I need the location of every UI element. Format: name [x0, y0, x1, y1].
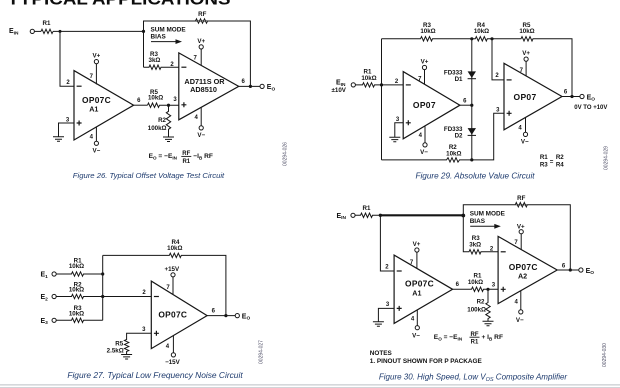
svg-text:3: 3 — [396, 117, 400, 123]
terminal EO — [235, 314, 239, 318]
svg-text:1. PINOUT SHOWN FOR P PACKAGE: 1. PINOUT SHOWN FOR P PACKAGE — [370, 358, 483, 365]
svg-text:V+: V+ — [93, 53, 101, 60]
svg-text:100kΩ: 100kΩ — [148, 125, 167, 132]
svg-text:4: 4 — [90, 134, 94, 140]
svg-text:R1: R1 — [540, 154, 548, 161]
svg-text:4: 4 — [515, 300, 519, 306]
wire bottom rail with resistor R2 — [382, 113, 505, 162]
svg-text:V−: V− — [197, 132, 205, 139]
node bottom rail junction — [470, 158, 473, 161]
svg-text:10kΩ: 10kΩ — [167, 245, 182, 252]
svg-text:10kΩ: 10kΩ — [148, 95, 163, 102]
node output junction — [249, 85, 252, 88]
svg-text:10kΩ: 10kΩ — [446, 151, 461, 158]
node bus junction 2 — [101, 295, 104, 298]
svg-text:BIAS: BIAS — [151, 34, 167, 41]
svg-text:10kΩ: 10kΩ — [69, 263, 84, 270]
svg-text:±10V: ±10V — [332, 87, 347, 94]
svg-text:R1: R1 — [43, 20, 51, 27]
ground — [483, 321, 494, 326]
svg-text:00294-030: 00294-030 — [602, 343, 608, 367]
svg-text:V−: V− — [412, 332, 420, 339]
svg-text:OP07: OP07 — [514, 92, 537, 102]
page bottom rule — [0, 384, 620, 385]
wire output — [239, 85, 260, 87]
svg-text:R3: R3 — [540, 161, 548, 168]
svg-text:Figure 26. Typical Offset Volt: Figure 26. Typical Offset Voltage Test C… — [73, 171, 225, 180]
ground — [121, 355, 132, 360]
wire — [34, 30, 41, 32]
svg-text:3kΩ: 3kΩ — [149, 57, 161, 64]
svg-text:EIN: EIN — [337, 213, 347, 221]
terminal EO — [260, 84, 264, 88]
svg-text:3: 3 — [386, 302, 390, 308]
node sum junction — [461, 214, 465, 218]
svg-text:BIAS: BIAS — [470, 218, 486, 225]
svg-text:10kΩ: 10kΩ — [468, 279, 483, 286]
svg-text:EO: EO — [586, 268, 595, 276]
svg-text:3: 3 — [173, 97, 177, 103]
svg-text:E3: E3 — [41, 318, 49, 326]
svg-text:7: 7 — [520, 68, 524, 74]
svg-text:EIN: EIN — [9, 28, 19, 36]
svg-text:V+: V+ — [517, 224, 525, 231]
svg-text:10kΩ: 10kΩ — [69, 310, 84, 317]
svg-text:0V TO +10V: 0V TO +10V — [574, 105, 607, 111]
svg-text:A2: A2 — [518, 272, 527, 281]
op-amp OP07C — [151, 281, 207, 349]
node diode rail top junction — [470, 37, 473, 40]
formula EO = -EIN RF/R1 - IB RF — [149, 151, 213, 165]
svg-text:V−: V− — [93, 147, 101, 154]
wire output A2 — [557, 269, 579, 271]
svg-text:E2: E2 — [41, 294, 49, 302]
svg-text:V−: V− — [521, 139, 529, 146]
ground — [53, 137, 64, 142]
svg-text:OP07C: OP07C — [405, 279, 434, 289]
node amp1 out junction — [470, 104, 473, 107]
svg-text:2: 2 — [495, 73, 499, 79]
svg-text:6: 6 — [456, 282, 460, 288]
svg-text:D1: D1 — [455, 76, 463, 83]
ground — [163, 137, 174, 142]
svg-text:4: 4 — [166, 344, 170, 350]
terminal EO — [579, 268, 583, 272]
svg-text:10kΩ: 10kΩ — [519, 28, 534, 35]
wire diode rail — [471, 39, 473, 160]
wire — [53, 30, 144, 32]
svg-text:R2: R2 — [556, 154, 564, 161]
svg-text:R1: R1 — [182, 159, 190, 165]
svg-text:R2: R2 — [158, 117, 166, 124]
resistor RF — [515, 203, 527, 207]
svg-text:4: 4 — [411, 317, 415, 323]
svg-text:6: 6 — [137, 98, 141, 104]
svg-text:OP07: OP07 — [413, 100, 436, 110]
formula EO = -EIN RF/R1 + IB RF — [434, 332, 503, 346]
svg-text:2: 2 — [395, 79, 399, 85]
svg-text:V+: V+ — [197, 38, 205, 45]
svg-text:EO = −EIN: EO = −EIN — [149, 153, 178, 160]
terminal EIN — [351, 213, 355, 217]
node output junction — [569, 268, 572, 271]
svg-text:E1: E1 — [41, 272, 49, 280]
svg-text:R1: R1 — [363, 205, 371, 212]
svg-text:−15V: −15V — [165, 359, 180, 366]
svg-text:Figure 29. Absolute Value Circ: Figure 29. Absolute Value Circuit — [415, 171, 535, 180]
wire bold sum bus — [380, 214, 463, 216]
svg-text:6: 6 — [212, 308, 216, 314]
svg-text:3: 3 — [492, 282, 496, 288]
svg-text:00294-029: 00294-029 — [604, 146, 610, 170]
svg-text:EO = −EIN: EO = −EIN — [434, 334, 463, 341]
svg-text:SUM MODE: SUM MODE — [470, 211, 506, 218]
terminal EO — [580, 94, 584, 98]
op-amp U2 OP07 — [504, 63, 562, 130]
svg-text:EO: EO — [242, 313, 251, 321]
resistor R3 3k wire to pin2 A2 — [463, 216, 498, 255]
svg-text:7: 7 — [514, 240, 518, 246]
op-amp U2 AD711S/AD8510 — [179, 53, 239, 120]
svg-text:00294-027: 00294-027 — [259, 340, 265, 364]
svg-text:EO: EO — [587, 94, 596, 102]
svg-text:Figure 27. Typical Low Frequen: Figure 27. Typical Low Frequency Noise C… — [67, 370, 243, 380]
svg-text:00294-026: 00294-026 — [283, 142, 289, 166]
wire top rail with R3 R4 R5 — [382, 37, 573, 97]
svg-text:7: 7 — [194, 56, 198, 62]
svg-text:V+: V+ — [413, 241, 421, 248]
svg-text:A1: A1 — [89, 104, 98, 113]
svg-text:4: 4 — [195, 115, 199, 121]
svg-text:RF: RF — [198, 11, 206, 18]
svg-text:10kΩ: 10kΩ — [420, 28, 435, 35]
svg-text:R5: R5 — [115, 340, 123, 347]
svg-text:OP07C: OP07C — [509, 262, 538, 272]
svg-text:100kΩ: 100kΩ — [467, 307, 486, 314]
terminal EIN — [351, 83, 355, 87]
wire output amp1 — [460, 104, 472, 106]
svg-text:SUM MODE: SUM MODE — [151, 26, 187, 33]
wire summing bus — [102, 255, 104, 320]
svg-text:AD8510: AD8510 — [190, 85, 217, 94]
svg-text:7: 7 — [166, 285, 170, 291]
svg-text:=: = — [550, 158, 554, 165]
svg-text:7: 7 — [410, 260, 414, 266]
svg-text:10kΩ: 10kΩ — [69, 287, 84, 294]
svg-text:−IB RF: −IB RF — [193, 153, 213, 160]
terminal EIN — [30, 29, 34, 33]
node sum junction — [142, 30, 145, 33]
svg-text:V+: V+ — [522, 50, 530, 57]
note R1/R3 = R2/R4 — [540, 154, 564, 169]
wire — [144, 21, 251, 86]
svg-text:3: 3 — [496, 107, 500, 113]
svg-text:R2: R2 — [477, 299, 485, 306]
wire output A1 / resistor R1 10k — [453, 287, 499, 291]
ground — [389, 137, 400, 142]
resistor RF — [196, 19, 208, 23]
svg-text:R4: R4 — [556, 161, 564, 168]
svg-text:10kΩ: 10kΩ — [361, 75, 376, 82]
wire output — [207, 315, 235, 317]
svg-text:7: 7 — [90, 74, 94, 80]
op-amp A1 OP07C — [394, 255, 453, 323]
diode D1 FD333 — [468, 71, 476, 78]
svg-text:2.5kΩ: 2.5kΩ — [107, 347, 124, 354]
terminal E2 — [52, 294, 56, 298]
svg-text:NOTES: NOTES — [370, 350, 393, 357]
svg-text:EO: EO — [267, 84, 276, 92]
svg-text:A1: A1 — [412, 288, 421, 297]
node left rail junction — [380, 83, 383, 86]
ground — [373, 322, 384, 327]
wire top feedback rail with resistor R4 — [103, 253, 226, 315]
svg-text:TYPICAL APPLICATIONS: TYPICAL APPLICATIONS — [8, 0, 231, 9]
svg-text:2: 2 — [385, 265, 389, 271]
wire to pin2 A1 — [380, 215, 394, 271]
terminal E3 — [52, 318, 56, 322]
node junction — [59, 30, 62, 33]
wire — [60, 31, 74, 86]
svg-text:7: 7 — [418, 76, 422, 82]
svg-text:4: 4 — [419, 133, 423, 139]
node junction R1/R2/pin3 — [486, 288, 489, 291]
node pin2 rail junction — [490, 37, 493, 40]
svg-text:RF: RF — [517, 195, 525, 202]
op-amp A1 OP07C — [74, 71, 134, 140]
svg-text:3kΩ: 3kΩ — [469, 242, 481, 249]
node input junction — [379, 214, 382, 217]
svg-text:2: 2 — [66, 80, 70, 86]
wire output A1 — [134, 104, 148, 106]
svg-text:+ IB RF: + IB RF — [482, 334, 503, 341]
svg-text:6: 6 — [242, 79, 246, 85]
node output junction — [224, 314, 227, 317]
resistor R1 — [41, 29, 53, 33]
node output junction — [570, 95, 573, 98]
wire output amp2 — [562, 96, 580, 98]
node junction R5/R2/pin3 — [167, 104, 170, 107]
svg-text:R1: R1 — [471, 340, 479, 346]
diode D2 FD333 — [468, 128, 476, 135]
svg-text:10kΩ: 10kΩ — [474, 28, 489, 35]
svg-text:6: 6 — [463, 98, 467, 104]
wire pin2 amp2 — [492, 39, 504, 80]
svg-text:V+: V+ — [421, 59, 429, 66]
svg-text:+15V: +15V — [164, 266, 179, 273]
wire left rail — [381, 39, 383, 160]
svg-text:2: 2 — [142, 290, 146, 296]
node bus junction 1 — [101, 272, 104, 275]
op-amp A2 OP07C — [498, 236, 557, 303]
svg-text:V−: V− — [420, 149, 428, 156]
svg-text:V−: V− — [516, 317, 524, 324]
terminal E1 — [52, 272, 56, 276]
svg-text:Figure 30. High Speed, Low VOS: Figure 30. High Speed, Low VOS Composite… — [379, 372, 568, 383]
svg-text:3: 3 — [142, 327, 146, 333]
svg-text:6: 6 — [562, 264, 566, 270]
wire RF feedback — [463, 205, 570, 270]
svg-text:D2: D2 — [455, 133, 463, 140]
svg-text:6: 6 — [564, 89, 568, 95]
svg-text:OP07C: OP07C — [158, 310, 187, 320]
svg-text:4: 4 — [518, 126, 522, 132]
op-amp U1 OP07 — [403, 72, 460, 139]
